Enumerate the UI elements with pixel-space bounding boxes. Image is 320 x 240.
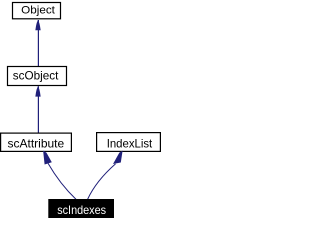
wire scAttribute to scObject: [37, 86, 39, 133]
inheritance arrowhead to scAttribute: [43, 151, 52, 165]
inheritance arrowhead to scObject: [35, 86, 40, 97]
svg-text:scIndexes: scIndexes: [57, 203, 106, 217]
current class box scIndexes: [48, 199, 114, 218]
wire scIndexes to scAttribute: [48, 163, 76, 199]
svg-text:scObject: scObject: [13, 68, 59, 82]
class box scAttribute: [1, 133, 72, 151]
class box Object: [13, 3, 61, 19]
wire scObject to Object: [37, 20, 39, 66]
inheritance arrowhead to IndexList: [113, 151, 123, 164]
svg-text:IndexList: IndexList: [107, 137, 153, 151]
inheritance arrowhead to Object: [35, 20, 40, 31]
svg-text:scAttribute: scAttribute: [8, 137, 65, 151]
svg-text:Object: Object: [21, 4, 55, 16]
wire scIndexes to IndexList: [88, 164, 116, 200]
class box IndexList: [97, 133, 161, 152]
class box scObject: [8, 67, 67, 86]
